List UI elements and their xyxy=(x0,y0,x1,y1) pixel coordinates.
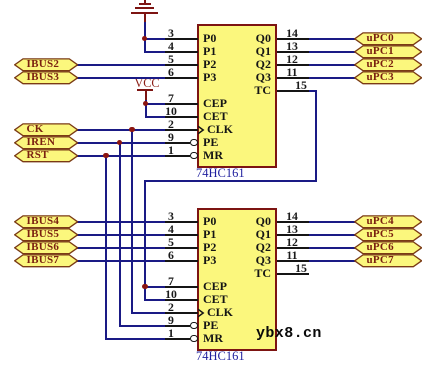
U1 pin name Q0 xyxy=(241,30,271,47)
junction IREN xyxy=(117,140,123,146)
U1 pin name CET xyxy=(203,108,228,125)
wire TC horizontal return xyxy=(144,180,317,182)
U2 pin number 1 xyxy=(160,325,182,342)
wire gnd to U1 P1 xyxy=(144,51,166,53)
U2 value label 74HC161 xyxy=(196,347,245,365)
U1 pin name CLK xyxy=(207,121,233,138)
U2 pin number 5 xyxy=(160,234,182,251)
U2 pin name PE xyxy=(203,317,218,334)
wire IBUS4 to U2 P0 xyxy=(77,221,165,223)
U1 pin 12 line xyxy=(277,64,309,66)
U1 pin number 14 xyxy=(281,25,303,42)
port uPC2 xyxy=(354,58,423,72)
U2 pin number 13 xyxy=(281,221,303,238)
U2 clock edge symbol xyxy=(198,308,207,318)
U2 pin name Q2 xyxy=(241,239,271,256)
watermark ybx8.cn xyxy=(256,326,322,341)
U1 pin 13 line xyxy=(277,51,309,53)
wire IBUS7 to U2 P3 xyxy=(77,260,165,262)
U1 pin 1 line xyxy=(165,155,190,157)
U2 pin name P3 xyxy=(203,252,216,269)
port uPC0 xyxy=(354,32,423,46)
U2 pin name P1 xyxy=(203,226,216,243)
wire IREN to U1 PE xyxy=(77,142,165,144)
wire TC to U2 CET xyxy=(144,299,165,301)
VCC power symbol xyxy=(135,75,160,93)
wire U2 Q0 to uPC4 xyxy=(309,221,355,223)
junction RST xyxy=(103,153,109,159)
port IREN xyxy=(14,136,79,150)
U2 pin name TC xyxy=(241,265,271,282)
wire IREN to U2 PE xyxy=(119,325,166,327)
U2 pin number 2 xyxy=(160,299,182,316)
U2 pin 10 line xyxy=(165,299,198,301)
U1 pin name CEP xyxy=(203,95,227,112)
U2 pin name Q3 xyxy=(241,252,271,269)
port IBUS6 xyxy=(14,241,79,255)
U2 pin name Q1 xyxy=(241,226,271,243)
U1 pin number 13 xyxy=(281,38,303,55)
port IBUS4 xyxy=(14,215,79,229)
U1 value label 74HC161 xyxy=(196,164,245,182)
U1 pin name Q1 xyxy=(241,43,271,60)
U2 pin 3 line xyxy=(165,221,198,223)
U1 pin 5 line xyxy=(165,64,198,66)
U2 pin number 6 xyxy=(160,247,182,264)
junction gnd/P0 xyxy=(142,36,148,42)
U2 pin name CET xyxy=(203,291,228,308)
U2 pin number 9 xyxy=(160,312,182,329)
U2 pin number 4 xyxy=(160,221,182,238)
U2 inversion bubble MR xyxy=(190,335,198,343)
U2 pin name Q0 xyxy=(241,213,271,230)
U1 pin name P2 xyxy=(203,56,216,73)
wire U2 Q3 to uPC7 xyxy=(309,260,355,262)
U1 pin name Q2 xyxy=(241,56,271,73)
U2 pin 4 line xyxy=(165,234,198,236)
U2 pin number 15 xyxy=(290,260,312,277)
U1 inversion bubble MR xyxy=(190,152,198,160)
wire U2 Q1 to uPC5 xyxy=(309,234,355,236)
wire U1 TC stub xyxy=(309,90,317,92)
U1 pin name P0 xyxy=(203,30,216,47)
U2 pin 6 line xyxy=(165,260,198,262)
U1 pin number 6 xyxy=(160,64,182,81)
wire VCC vertical to CEP/CET xyxy=(145,100,147,117)
wire RST to U1 MR xyxy=(77,155,165,157)
U2 pin 7 line xyxy=(165,286,198,288)
wire TC down right side xyxy=(315,91,317,182)
U1 pin number 7 xyxy=(160,90,182,107)
U2 pin number 10 xyxy=(160,286,182,303)
U1 pin name MR xyxy=(203,147,223,164)
U2 pin 5 line xyxy=(165,247,198,249)
junction VCC/CEP xyxy=(143,101,149,107)
wire U1 Q3 to uPC3 xyxy=(309,77,355,79)
U2 pin number 12 xyxy=(281,234,303,251)
U1 pin 3 line xyxy=(165,38,198,40)
wire IREN vertical to U2 PE xyxy=(119,143,121,326)
port CK xyxy=(14,123,79,137)
U2 pin 12 line xyxy=(277,247,309,249)
wire IBUS2 to U1 P2 xyxy=(77,64,165,66)
wire VCC to U1 CET xyxy=(145,116,166,118)
port uPC4 xyxy=(354,215,423,229)
port IBUS3 xyxy=(14,71,79,85)
U1 pin name PE xyxy=(203,134,218,151)
wire U1 Q1 to uPC1 xyxy=(309,51,355,53)
U1 pin number 3 xyxy=(160,25,182,42)
U2 pin 2 line xyxy=(165,312,198,314)
wire gnd to U1 P0 xyxy=(144,38,166,40)
U2 pin 15 line xyxy=(277,273,309,275)
U2 pin 14 line xyxy=(277,221,309,223)
U2 pin name CEP xyxy=(203,278,227,295)
U2 pin 11 line xyxy=(277,260,309,262)
U1 pin 4 line xyxy=(165,51,198,53)
port RST xyxy=(14,149,79,163)
port IBUS7 xyxy=(14,254,79,268)
wire IBUS3 to U1 P3 xyxy=(77,77,165,79)
junction CK xyxy=(129,127,135,133)
U1 pin 2 line xyxy=(165,129,198,131)
U2 pin 9 line xyxy=(165,325,190,327)
U1 pin number 10 xyxy=(160,103,182,120)
U2 pin number 7 xyxy=(160,273,182,290)
U1 pin 6 line xyxy=(165,77,198,79)
U2 pin 13 line xyxy=(277,234,309,236)
IC U1 74HC161 xyxy=(197,24,277,168)
wire TC to U2 CEP xyxy=(144,286,165,288)
port uPC6 xyxy=(354,241,423,255)
port uPC7 xyxy=(354,254,423,268)
wire U2 Q2 to uPC6 xyxy=(309,247,355,249)
ground symbol xyxy=(144,0,146,3)
U1 pin name P3 xyxy=(203,69,216,86)
wire U1 Q2 to uPC2 xyxy=(309,64,355,66)
wire TC down to U2 CEP/CET xyxy=(144,181,146,300)
U1 pin 9 line xyxy=(165,142,190,144)
wire VCC to U1 CEP xyxy=(145,103,166,105)
U1 pin number 5 xyxy=(160,51,182,68)
wire RST to U2 MR xyxy=(105,338,165,340)
U2 pin name P0 xyxy=(203,213,216,230)
U2 pin name MR xyxy=(203,330,223,347)
U1 pin 10 line xyxy=(165,116,198,118)
U1 pin name P1 xyxy=(203,43,216,60)
wire CK to U1 CLK xyxy=(77,129,165,131)
wire U1 Q0 to uPC0 xyxy=(309,38,355,40)
U2 pin name P2 xyxy=(203,239,216,256)
junction TC/CEP xyxy=(142,284,148,290)
U2 pin number 14 xyxy=(281,208,303,225)
U2 inversion bubble PE xyxy=(190,322,198,330)
U1 pin number 12 xyxy=(281,51,303,68)
port uPC5 xyxy=(354,228,423,242)
port IBUS5 xyxy=(14,228,79,242)
wire RST vertical to U2 MR xyxy=(105,156,107,339)
U1 pin name Q3 xyxy=(241,69,271,86)
U1 clock edge symbol xyxy=(198,125,207,135)
U1 pin number 9 xyxy=(160,129,182,146)
wire CK vertical to U2 CLK xyxy=(131,130,133,313)
wire gnd vertical to P0/P1 xyxy=(144,22,146,52)
U1 pin 7 line xyxy=(165,103,198,105)
U1 inversion bubble PE xyxy=(190,139,198,147)
port IBUS2 xyxy=(14,58,79,72)
wire CK to U2 CLK xyxy=(131,312,165,314)
U2 pin 1 line xyxy=(165,338,190,340)
U1 pin 15 line xyxy=(277,90,309,92)
U1 pin 14 line xyxy=(277,38,309,40)
U2 pin number 11 xyxy=(281,247,303,264)
U1 pin number 2 xyxy=(160,116,182,133)
U1 pin name TC xyxy=(241,82,271,99)
U1 pin number 15 xyxy=(290,77,312,94)
wire IBUS5 to U2 P1 xyxy=(77,234,165,236)
IC U2 74HC161 xyxy=(197,208,277,352)
U2 pin number 3 xyxy=(160,208,182,225)
U2 pin name CLK xyxy=(207,304,233,321)
port uPC3 xyxy=(354,71,423,85)
port uPC1 xyxy=(354,45,423,59)
U1 pin number 11 xyxy=(281,64,303,81)
U1 pin number 4 xyxy=(160,38,182,55)
U1 pin number 1 xyxy=(160,142,182,159)
U1 pin 11 line xyxy=(277,77,309,79)
wire IBUS6 to U2 P2 xyxy=(77,247,165,249)
